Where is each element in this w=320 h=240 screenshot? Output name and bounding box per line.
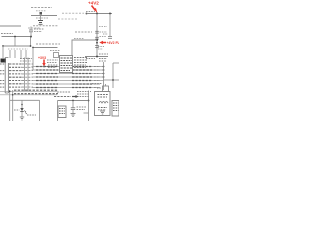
label net row faint2 (58, 18, 78, 20)
label C4 (100, 36, 107, 38)
bus row 4 label left (36, 76, 58, 78)
antenna module U2 body (95, 92, 111, 116)
bus wire vertical B (27, 58, 29, 92)
bus row 7 wire (32, 87, 101, 89)
capacitor C4 plates on rail (95, 36, 99, 38)
label U2 rows (98, 95, 109, 98)
bus row 7 label left (36, 87, 58, 89)
LED D2 bar (20, 111, 23, 113)
power flag arrowhead (94, 8, 98, 13)
wire down to CN1 (2, 46, 4, 58)
node junction bottom (88, 100, 90, 102)
label pins row (8, 48, 28, 50)
header pin (25, 50, 27, 58)
bus wire vertical D long (12, 90, 14, 121)
connector CN1 body right edge (7, 63, 9, 93)
wire drop (14, 37, 16, 47)
inductor L1 symbol (99, 102, 108, 104)
bus row 8 label (14, 89, 58, 91)
label U3 line2 (47, 62, 57, 64)
mid bus rows (0, 67, 104, 95)
switch SW1 body (40, 12, 43, 15)
wire switch rail (31, 15, 57, 17)
bus row 6 label right (72, 83, 92, 85)
label C5 (98, 46, 104, 48)
label rail note (99, 26, 107, 28)
bus row 2 label right (72, 69, 92, 71)
label above wire (74, 38, 84, 40)
CN1 pin row 3 (9, 70, 22, 72)
bus row 2 net flag (94, 69, 100, 71)
label U1 pin names right (74, 58, 88, 68)
node dot (86, 13, 88, 15)
bus row 9 label (14, 93, 58, 95)
bus row 1 label left (36, 66, 58, 68)
label R1 (50, 50, 60, 52)
capacitor C5 plates on rail (95, 45, 99, 47)
header pin (14, 50, 16, 58)
header pin (9, 50, 11, 58)
bus row 5 label right (72, 80, 92, 82)
CN1 pin row 6 (9, 80, 22, 82)
LED D2 arrows (24, 111, 26, 113)
label below module (57, 91, 70, 93)
bus row 4 wire (32, 76, 104, 78)
capacitor C1 bottom plate (29, 31, 33, 33)
label above U1 (75, 31, 92, 33)
label J2 rows (59, 109, 65, 114)
bus row 5 wire (32, 80, 104, 82)
CN1 pin row 7 (9, 83, 22, 85)
net label arrow (72, 96, 76, 98)
wire mid bus (33, 47, 58, 49)
power flag +3V3 arrow shaft (43, 60, 45, 64)
label D2 value (27, 114, 36, 116)
bus row 5 net flag (94, 80, 100, 82)
label left of crystal (92, 83, 102, 85)
node junction fuse tap (96, 42, 98, 44)
label U1 text rows (61, 58, 73, 71)
label C1 value (34, 28, 44, 30)
wire C1 lead (30, 32, 32, 37)
label C2 (103, 33, 108, 35)
bus row 1 wire (32, 66, 104, 68)
wire 3v3 out (44, 66, 58, 68)
label net row (54, 96, 71, 98)
wire rail down (96, 14, 98, 57)
bus row 1 net flag (94, 66, 100, 68)
label L1 (98, 107, 107, 109)
bus row 6 wire (32, 83, 101, 85)
wire stub at 113 (84, 112, 89, 114)
bus row 7 net flag (94, 87, 100, 89)
label C6 value (48, 67, 56, 69)
wire bus (3, 45, 31, 47)
wire bottom-left vertical (39, 100, 41, 121)
connector CN1 body left edge (4, 58, 6, 94)
wire U1 power feed (72, 40, 97, 56)
ground Y1 (103, 94, 108, 96)
capacitor C7 plates (71, 107, 75, 109)
label C5 value (98, 48, 103, 50)
bus row 3 wire (32, 73, 104, 75)
label right of rail rows (86, 54, 108, 61)
bus row 6 net flag (94, 83, 100, 85)
connector CN1 bottom edge (5, 92, 8, 94)
wire left of U2 vertical (88, 91, 90, 122)
ground U2 (100, 110, 105, 112)
header pin (20, 50, 22, 58)
CN1 pin row 5 (9, 76, 22, 78)
node junction (96, 56, 98, 58)
connector J3 body right (112, 101, 119, 117)
wire bottom-left bus line (10, 99, 40, 101)
wire to edge y80 (104, 79, 120, 81)
wire drop (30, 37, 32, 47)
battery BT1 plate short (39, 22, 42, 24)
node junction bus (9, 91, 11, 93)
wire bottom net (58, 100, 89, 102)
power flag +4V2F arrow shaft (103, 42, 107, 44)
capacitor C7 lower lead (72, 110, 74, 113)
CN1 pin row 1 (9, 63, 22, 65)
LED D2 triangle (20, 108, 23, 111)
wire C1 top lead (30, 27, 32, 31)
svg-text:+4V2: +4V2 (88, 1, 99, 6)
label under rail (36, 17, 48, 19)
capacitor C3 plates on rail (95, 30, 99, 32)
bus row 7 label right (72, 87, 92, 89)
node junction (2, 45, 4, 47)
capacitor C1 top plate (29, 29, 33, 31)
connector CN1 dark label (1, 59, 7, 63)
svg-text:+3V3: +3V3 (38, 56, 46, 60)
label C6 (48, 64, 58, 66)
wire to edge top (113, 62, 119, 64)
bus row 9 wire (0, 94, 57, 96)
node junction rail (96, 39, 98, 41)
label text VBUS (1, 33, 13, 35)
connector CN1 top edge (5, 57, 8, 59)
wire net VIN left (0, 25, 21, 27)
label caps right rows (77, 92, 91, 97)
module U1 body (60, 56, 73, 73)
capacitor C7 lead (72, 101, 74, 108)
bus wire vertical A (24, 58, 26, 92)
node junction (109, 13, 111, 15)
label BT1 value (33, 25, 58, 27)
wire +4V2 rail horizontal (87, 13, 112, 15)
node junction LED (21, 104, 23, 106)
power flag +4V2 arrow (92, 6, 96, 11)
net label text (28, 27, 40, 29)
bus row 4 net flag (94, 76, 100, 78)
bus row 2 label left (36, 69, 58, 71)
wire right vertical x104 (103, 62, 105, 90)
LED D2 lead (21, 100, 23, 108)
wire right vertical x113 (112, 63, 114, 88)
label Y1 (97, 87, 102, 89)
wire branch down (109, 14, 111, 37)
bus row 8 wire (0, 90, 57, 92)
wire VBUS (2, 36, 32, 38)
label U3 line1 (47, 59, 58, 61)
capacitor C2 plates (108, 36, 112, 38)
LED D2 lower lead (21, 112, 23, 117)
power flag +4V2F arrowhead left (99, 41, 103, 44)
connector J2 body (58, 106, 66, 118)
bus row 3 label right (72, 73, 92, 75)
regulator U3 body (54, 53, 59, 58)
battery BT1 plate long (38, 20, 43, 22)
node junction (30, 45, 32, 47)
bus row 3 net flag (94, 73, 100, 75)
wire bottom left vertical (57, 101, 59, 122)
label net row faint (62, 12, 84, 14)
node junctions on bus right (103, 66, 105, 68)
node junction (30, 36, 32, 38)
ground C7 (71, 113, 76, 115)
label PROG header (36, 43, 60, 45)
battery BT1 lead (40, 16, 42, 21)
CN1 pin row 4 (9, 73, 22, 75)
bus row 5 label left (36, 80, 58, 82)
bus wire vertical C long (9, 90, 11, 121)
label J3 rows (113, 103, 119, 111)
ground D2 (20, 116, 24, 118)
CN1 pin row 8 (9, 86, 22, 88)
label header title (31, 7, 52, 9)
label SW1 (36, 10, 46, 12)
label +4V2 rail (86, 11, 95, 13)
crystal Y1 leads (105, 84, 107, 86)
node junction (112, 79, 114, 81)
label C3 (100, 31, 108, 33)
bus row 1 label right (72, 66, 92, 68)
bus row 6 label left (36, 83, 58, 85)
power flag +3V3 arrowhead (42, 63, 45, 67)
crystal Y1 body (103, 86, 109, 92)
svg-text:+4V2 FUSED: +4V2 FUSED (107, 41, 120, 45)
bus row 3 label left (36, 73, 58, 75)
node junction 3v3 (43, 66, 45, 68)
node junction (96, 13, 98, 15)
CN1 left pin labels (0, 64, 5, 87)
wire down from bus (32, 48, 34, 71)
label C7 rows (77, 107, 87, 110)
label CN1 title rows (20, 58, 32, 60)
node junction (72, 100, 74, 102)
bus row 4 label right (72, 76, 92, 78)
label D2 left (14, 109, 20, 111)
CN1 pin row 2 (9, 66, 22, 68)
node junction (32, 47, 34, 49)
wire rail bottom (85, 56, 108, 58)
bus row 2 wire (32, 69, 104, 71)
label L1 value (98, 109, 106, 111)
